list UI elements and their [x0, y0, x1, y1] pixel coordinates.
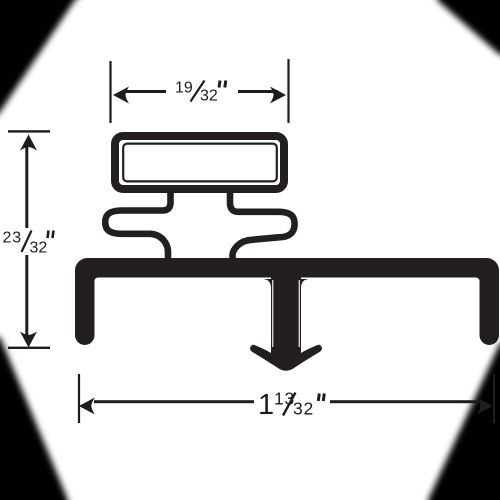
- svg-text:23: 23: [3, 230, 22, 247]
- svg-text:19: 19: [175, 80, 193, 97]
- svg-text:1: 1: [258, 389, 274, 421]
- svg-text:32: 32: [200, 88, 218, 105]
- svg-text:32: 32: [293, 399, 314, 419]
- svg-text:32: 32: [30, 240, 48, 257]
